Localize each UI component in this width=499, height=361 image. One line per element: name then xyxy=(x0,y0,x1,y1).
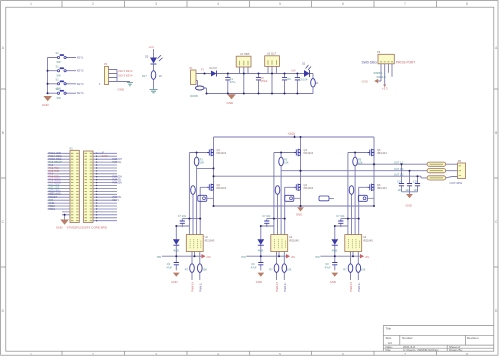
svg-text:U1 7805: U1 7805 xyxy=(240,53,250,56)
svg-text:GND: GND xyxy=(362,79,368,83)
svg-text:IRF1404: IRF1404 xyxy=(304,152,314,155)
svg-text:104: 104 xyxy=(406,189,411,192)
svg-text:D1 M7: D1 M7 xyxy=(210,67,218,70)
svg-text:KEY1 KEY2: KEY1 KEY2 xyxy=(119,69,134,73)
svg-text:KEY3 KEY4: KEY3 KEY4 xyxy=(119,74,134,78)
svg-text:C14: C14 xyxy=(397,180,402,183)
svg-text:GND: GND xyxy=(118,88,126,92)
svg-text:C6 104: C6 104 xyxy=(299,79,308,82)
svg-text:104: 104 xyxy=(414,189,419,192)
svg-text:IRF1404: IRF1404 xyxy=(217,152,227,155)
svg-text:2: 2 xyxy=(92,352,94,356)
svg-text:PB13: PB13 xyxy=(49,207,56,211)
svg-text:OUT 1.1: OUT 1.1 xyxy=(394,161,404,164)
svg-text:S1: S1 xyxy=(56,51,60,55)
svg-text:10K: 10K xyxy=(358,162,363,165)
svg-text:KEY3: KEY3 xyxy=(77,82,84,86)
svg-text:Revision: Revision xyxy=(467,336,479,340)
svg-text:GND: GND xyxy=(406,203,412,207)
svg-text:GND: GND xyxy=(42,103,50,107)
svg-text:4: 4 xyxy=(217,2,219,6)
svg-text:B: B xyxy=(2,131,4,135)
svg-text:+3.3V: +3.3V xyxy=(100,154,108,158)
svg-text:S1: S1 xyxy=(56,87,60,91)
svg-text:File:: File: xyxy=(386,348,392,352)
svg-text:10K: 10K xyxy=(284,162,289,165)
svg-text:KEY1: KEY1 xyxy=(77,56,84,60)
svg-text:DC005: DC005 xyxy=(190,95,198,98)
svg-text:C16: C16 xyxy=(413,180,418,183)
svg-text:IRF1404: IRF1404 xyxy=(377,152,387,155)
svg-text:P4: P4 xyxy=(104,62,108,66)
svg-text:C:\Users\..\SPWM.SchDoc: C:\Users\..\SPWM.SchDoc xyxy=(403,348,439,352)
svg-text:SWD-DBG: SWD-DBG xyxy=(362,60,378,64)
svg-text:+3.3: +3.3 xyxy=(382,87,388,91)
svg-text:1: 1 xyxy=(30,2,32,6)
svg-text:+24V: +24V xyxy=(288,132,296,136)
svg-text:KEY1: KEY1 xyxy=(113,199,120,202)
svg-text:SW: SW xyxy=(57,73,62,77)
svg-text:R17: R17 xyxy=(142,74,147,78)
svg-text:SWDIO: SWDIO xyxy=(374,71,383,75)
svg-text:1K: 1K xyxy=(159,74,162,78)
svg-text:104: 104 xyxy=(398,189,403,192)
svg-text:OUT-3PH: OUT-3PH xyxy=(450,181,463,185)
svg-text:IRF1404: IRF1404 xyxy=(217,187,227,190)
svg-text:P3: P3 xyxy=(377,50,381,54)
svg-text:1: 1 xyxy=(30,352,32,356)
svg-text:4: 4 xyxy=(217,352,219,356)
svg-text:6: 6 xyxy=(342,352,344,356)
svg-text:PWM3H: PWM3H xyxy=(113,182,123,185)
svg-text:+3.3: +3.3 xyxy=(149,45,155,49)
svg-text:470u: 470u xyxy=(230,81,236,84)
svg-text:SWCLK: SWCLK xyxy=(377,75,386,79)
svg-text:PWM1L: PWM1L xyxy=(113,161,123,164)
svg-text:U3 1117: U3 1117 xyxy=(267,52,277,55)
svg-text:IRF1404: IRF1404 xyxy=(377,187,387,190)
svg-text:7: 7 xyxy=(404,2,406,6)
svg-text:SW: SW xyxy=(57,60,62,64)
svg-text:1K: 1K xyxy=(315,82,318,85)
svg-text:KEY4: KEY4 xyxy=(77,91,84,95)
svg-text:IRF1404: IRF1404 xyxy=(304,187,314,190)
svg-text:6: 6 xyxy=(342,2,344,6)
svg-text:104: 104 xyxy=(287,78,292,81)
svg-text:3: 3 xyxy=(155,352,157,356)
svg-text:10K: 10K xyxy=(200,162,205,165)
svg-text:Size: Size xyxy=(386,336,392,340)
svg-text:S1: S1 xyxy=(56,77,60,81)
svg-text:GND: GND xyxy=(56,225,64,229)
svg-text:5: 5 xyxy=(279,352,281,356)
svg-text:3: 3 xyxy=(155,2,157,6)
svg-text:8: 8 xyxy=(466,2,468,6)
svg-text:S1: S1 xyxy=(56,64,60,68)
svg-text:+5V: +5V xyxy=(291,70,296,73)
svg-text:470uF: 470uF xyxy=(261,80,269,83)
svg-text:B: B xyxy=(495,131,497,135)
svg-text:7: 7 xyxy=(404,352,406,356)
svg-text:OUT 1.3: OUT 1.3 xyxy=(394,173,404,176)
svg-text:SW: SW xyxy=(57,96,62,100)
svg-text:OUT 1.2: OUT 1.2 xyxy=(394,168,404,171)
svg-text:Drawn By:: Drawn By: xyxy=(449,348,463,352)
svg-text:D5: D5 xyxy=(145,55,149,59)
svg-text:GND: GND xyxy=(296,212,302,216)
svg-text:8: 8 xyxy=(466,352,468,356)
svg-text:GND: GND xyxy=(227,101,235,105)
svg-text:Title: Title xyxy=(386,327,392,331)
svg-text:5: 5 xyxy=(279,2,281,6)
svg-text:KEY2: KEY2 xyxy=(77,69,84,73)
svg-text:P2: P2 xyxy=(70,146,74,150)
svg-text:PROG-PORT: PROG-PORT xyxy=(396,60,415,64)
svg-text:2: 2 xyxy=(92,2,94,6)
svg-text:Number: Number xyxy=(402,336,413,340)
svg-text:STM32F103C8T6 CORE BRD: STM32F103C8T6 CORE BRD xyxy=(67,225,108,229)
